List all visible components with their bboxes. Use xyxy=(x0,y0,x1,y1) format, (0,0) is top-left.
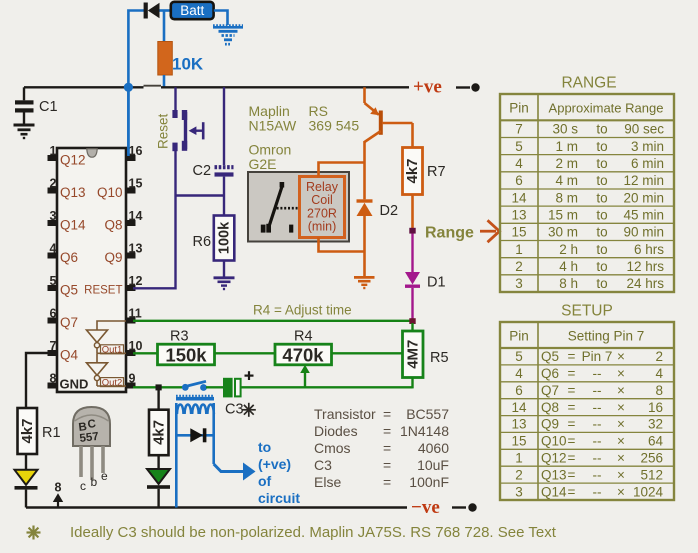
pin 13 xyxy=(126,242,142,259)
svg-text:4: 4 xyxy=(515,366,523,381)
svg-text:6 min: 6 min xyxy=(631,156,664,171)
svg-text:circuit: circuit xyxy=(258,490,300,506)
svg-text:×: × xyxy=(617,400,625,415)
pin 9 xyxy=(126,372,136,389)
wire junction to R2 xyxy=(157,390,159,410)
svg-text:to: to xyxy=(596,207,607,222)
label Q5 xyxy=(60,283,78,298)
svg-text:Relay: Relay xyxy=(306,180,339,194)
svg-text:2: 2 xyxy=(50,177,57,191)
svg-text:RANGE: RANGE xyxy=(561,75,616,92)
svg-text:R4: R4 xyxy=(294,329,313,345)
svg-text:N15AW: N15AW xyxy=(249,118,298,134)
wire inverter1 to pin 10 xyxy=(97,352,126,354)
svg-text:100nF: 100nF xyxy=(409,474,449,490)
label C3 xyxy=(225,402,244,418)
wire reset to pin 12 xyxy=(133,151,176,288)
svg-text:11: 11 xyxy=(129,307,142,321)
inductor L1 (relay coil pickup, blue) xyxy=(176,396,214,414)
svg-text:15 m: 15 m xyxy=(548,207,578,222)
svg-text:7: 7 xyxy=(515,122,523,137)
wire pin 7 to R1 xyxy=(26,353,48,408)
svg-text:5: 5 xyxy=(515,349,523,364)
pin 6 xyxy=(48,307,58,324)
pin 16 xyxy=(126,144,142,161)
svg-text:--: -- xyxy=(593,366,602,381)
svg-text:C2: C2 xyxy=(193,163,212,179)
svg-text:90 sec: 90 sec xyxy=(624,122,664,137)
label Q10 xyxy=(97,185,123,200)
svg-text:369 545: 369 545 xyxy=(309,118,360,134)
wire rail to pin 16 xyxy=(127,87,130,156)
svg-text:SETUP: SETUP xyxy=(561,303,613,320)
svg-text:Reset: Reset xyxy=(156,113,171,149)
label Q8 xyxy=(104,218,122,233)
svg-text:8: 8 xyxy=(655,383,663,398)
svg-text:512: 512 xyxy=(640,467,663,482)
svg-text:=: = xyxy=(383,457,391,473)
svg-text:10: 10 xyxy=(129,339,143,353)
pin 7 xyxy=(48,339,58,356)
arrow Range to table xyxy=(480,220,500,242)
node Range junction xyxy=(409,228,415,234)
svg-text:4k7: 4k7 xyxy=(404,158,421,183)
label Q12 xyxy=(60,153,86,168)
node pin11/R5 junction xyxy=(409,318,415,324)
wire pin 11 net xyxy=(133,320,411,322)
svg-text:8 m: 8 m xyxy=(555,190,578,205)
footnote asterisk xyxy=(27,526,41,540)
transistor package TO-92 BC557 xyxy=(73,407,110,493)
ground R6 (purple) xyxy=(214,278,235,289)
svg-text:to: to xyxy=(596,139,607,154)
svg-text:(+ve): (+ve) xyxy=(258,456,291,472)
svg-text:×: × xyxy=(617,434,625,449)
resistor R6 100k xyxy=(214,216,235,278)
svg-text:=: = xyxy=(568,451,576,466)
diode D5 (blue leads) xyxy=(176,428,213,442)
wire coil right leg xyxy=(212,403,215,464)
svg-text:c: c xyxy=(80,479,86,493)
svg-text:Pin: Pin xyxy=(509,101,529,116)
svg-text:to: to xyxy=(596,122,607,137)
svg-text:4k7: 4k7 xyxy=(19,418,36,443)
IC U1 4060 body xyxy=(57,148,126,392)
relay K1 body xyxy=(248,172,349,242)
svg-text:90 min: 90 min xyxy=(623,225,664,240)
svg-text:BC557: BC557 xyxy=(406,406,449,422)
ground relay (orange) xyxy=(354,277,375,288)
svg-text:to: to xyxy=(596,242,607,257)
svg-text:2 h: 2 h xyxy=(559,242,578,257)
diode D2 xyxy=(357,199,373,216)
svg-text:=: = xyxy=(568,434,576,449)
svg-text:C3: C3 xyxy=(314,457,332,473)
node pin9 junction xyxy=(156,384,162,390)
svg-text:3: 3 xyxy=(515,484,523,499)
wire R3 to R4 xyxy=(215,352,276,354)
svg-text:b: b xyxy=(91,475,98,489)
label R5 xyxy=(430,350,449,366)
svg-text:Q4: Q4 xyxy=(60,348,79,363)
svg-text:Pin: Pin xyxy=(509,329,529,344)
pin 10 xyxy=(126,339,142,356)
wire rail to reset switch xyxy=(174,87,176,110)
label D2 xyxy=(380,203,399,219)
svg-text:5: 5 xyxy=(515,139,523,154)
svg-text:R3: R3 xyxy=(170,329,189,345)
svg-text:×: × xyxy=(617,349,625,364)
wire rail to C2 xyxy=(223,87,225,165)
svg-text:10K: 10K xyxy=(172,55,204,74)
resistor R7 4k7 xyxy=(403,148,423,195)
pin 1 xyxy=(48,144,58,161)
table RANGE xyxy=(500,94,674,292)
svg-text:3: 3 xyxy=(515,276,523,291)
resistor R1 4k7 xyxy=(18,408,38,454)
svg-text:30 m: 30 m xyxy=(548,225,578,240)
svg-text:1 m: 1 m xyxy=(555,139,578,154)
diode D-batt xyxy=(144,3,171,19)
svg-text:Q6: Q6 xyxy=(541,366,559,381)
label R4 xyxy=(294,329,313,345)
svg-text:100k: 100k xyxy=(216,221,232,254)
svg-text:--: -- xyxy=(593,417,602,432)
svg-text:15: 15 xyxy=(511,225,526,240)
svg-text:Q9: Q9 xyxy=(104,250,122,265)
svg-text:(min): (min) xyxy=(308,220,336,234)
wire R1 to LED1 xyxy=(25,454,27,470)
svg-text:270R: 270R xyxy=(307,206,337,220)
pin 5 xyxy=(48,274,58,291)
wire relay coil bottom xyxy=(319,238,365,252)
svg-text:4: 4 xyxy=(655,366,663,381)
svg-text:D1: D1 xyxy=(427,275,446,291)
wire reset node to C2/R6 node xyxy=(176,194,225,196)
svg-text:Q7: Q7 xyxy=(541,383,559,398)
svg-text:×: × xyxy=(617,366,625,381)
capacitor C2 xyxy=(215,167,234,215)
svg-text:to: to xyxy=(596,173,607,188)
pin 4 xyxy=(48,242,58,259)
svg-text:6 hrs: 6 hrs xyxy=(634,242,664,257)
label Out1 xyxy=(101,345,124,356)
svg-text:C3: C3 xyxy=(225,402,244,418)
svg-text:8: 8 xyxy=(50,372,57,386)
LED D4 green xyxy=(147,469,170,508)
svg-text:14: 14 xyxy=(511,400,527,415)
svg-text:24 hrs: 24 hrs xyxy=(626,276,664,291)
svg-text:2: 2 xyxy=(515,467,523,482)
pin 8 xyxy=(48,372,58,389)
svg-text:Q9: Q9 xyxy=(541,417,559,432)
svg-text:13: 13 xyxy=(511,417,526,432)
svg-text:1024: 1024 xyxy=(633,484,664,499)
svg-text:=: = xyxy=(383,406,391,422)
LED D3 yellow xyxy=(15,470,38,508)
svg-text:×: × xyxy=(617,484,625,499)
wire collector to relay coil top xyxy=(319,163,365,177)
svg-text:Q5: Q5 xyxy=(541,349,559,364)
svg-text:9: 9 xyxy=(129,372,136,386)
svg-text:1: 1 xyxy=(515,242,523,257)
ground C1 xyxy=(14,125,35,138)
wire inverter2 to pin 9 xyxy=(97,385,126,387)
label R7 xyxy=(427,164,446,180)
junction battery/rail xyxy=(124,83,133,92)
svg-text:Q12: Q12 xyxy=(60,153,86,168)
svg-text:12 hrs: 12 hrs xyxy=(626,259,664,274)
svg-text:e: e xyxy=(101,469,108,483)
relay coil box xyxy=(300,177,345,238)
svg-text:470k: 470k xyxy=(282,345,324,366)
label R4 = Adjust time xyxy=(253,303,352,318)
svg-text:=: = xyxy=(568,349,576,364)
svg-text:Q10: Q10 xyxy=(97,185,123,200)
svg-text:14: 14 xyxy=(129,209,143,223)
svg-text:4: 4 xyxy=(515,156,523,171)
svg-text:150k: 150k xyxy=(165,345,207,366)
label C1 xyxy=(39,99,58,115)
wire R5 bottom to lower net xyxy=(411,378,413,389)
svg-text:−ve: −ve xyxy=(411,497,440,518)
svg-text:Transistor: Transistor xyxy=(314,406,376,422)
node +ve xyxy=(413,77,480,98)
svg-text:Q14: Q14 xyxy=(541,484,567,499)
node -ve xyxy=(411,497,477,518)
pin 8 marker arrow xyxy=(53,481,63,507)
pin 15 xyxy=(126,177,142,194)
svg-text:4060: 4060 xyxy=(418,440,449,456)
svg-text:×: × xyxy=(617,451,625,466)
table SETUP xyxy=(500,322,674,500)
svg-text:R6: R6 xyxy=(193,234,212,250)
battery Batt xyxy=(171,2,214,19)
svg-text:4M7: 4M7 xyxy=(404,340,421,369)
svg-text:32: 32 xyxy=(648,417,663,432)
svg-text:Diodes: Diodes xyxy=(314,423,358,439)
switch Reset (push button) xyxy=(172,110,203,151)
capacitor C3 xyxy=(223,371,254,397)
wire D1 to R5 node xyxy=(411,288,413,319)
label to (+ve) of circuit xyxy=(258,439,300,506)
wire R2 to LED2 xyxy=(157,455,159,469)
wire R7 to Range node xyxy=(411,195,414,230)
svg-text:--: -- xyxy=(593,484,602,499)
svg-text:--: -- xyxy=(593,467,602,482)
svg-text:=: = xyxy=(383,423,391,439)
resistor 10K xyxy=(158,11,173,88)
svg-text:Q8: Q8 xyxy=(104,218,122,233)
svg-text:Pin 7: Pin 7 xyxy=(582,349,613,364)
svg-text:4k7: 4k7 xyxy=(150,420,167,445)
svg-text:--: -- xyxy=(593,434,602,449)
label GND xyxy=(60,377,89,392)
pin 14 xyxy=(126,209,142,226)
svg-text:3 min: 3 min xyxy=(631,139,664,154)
capacitor C1 xyxy=(15,87,34,124)
svg-text:R5: R5 xyxy=(430,350,449,366)
asterisk C3 xyxy=(242,403,256,417)
ground battery (blue) xyxy=(213,25,243,44)
svg-text:Q8: Q8 xyxy=(541,400,559,415)
resistor R3 150k xyxy=(158,344,215,365)
svg-text:15: 15 xyxy=(511,434,526,449)
label R1 xyxy=(42,425,61,441)
svg-text:+ve: +ve xyxy=(413,77,442,98)
svg-text:8: 8 xyxy=(55,481,62,495)
svg-text:6: 6 xyxy=(50,307,57,321)
svg-text:to: to xyxy=(596,259,607,274)
label RESET xyxy=(84,285,122,297)
inverter buffer 2 xyxy=(87,353,108,386)
svg-text:Batt: Batt xyxy=(180,3,204,18)
svg-text:6: 6 xyxy=(515,383,523,398)
svg-text:1: 1 xyxy=(50,144,57,158)
svg-text:7: 7 xyxy=(50,339,57,353)
svg-text:D2: D2 xyxy=(380,203,399,219)
svg-text:16: 16 xyxy=(648,400,663,415)
relay contact symbol xyxy=(261,182,299,233)
svg-text:2: 2 xyxy=(515,259,523,274)
svg-text:4 m: 4 m xyxy=(555,173,578,188)
label D1 xyxy=(427,275,446,291)
label R3 xyxy=(170,329,189,345)
svg-text:12: 12 xyxy=(129,274,143,288)
label Q9 xyxy=(104,250,122,265)
svg-text:16: 16 xyxy=(129,144,143,158)
svg-text:13: 13 xyxy=(511,207,526,222)
wire batt to ground xyxy=(214,11,228,26)
svg-text:Cmos: Cmos xyxy=(314,440,351,456)
resistor R2 4k7 xyxy=(149,410,169,456)
svg-text:8 h: 8 h xyxy=(559,276,578,291)
wire collector down through D2 xyxy=(363,163,366,277)
svg-text:Q10: Q10 xyxy=(541,434,567,449)
svg-text:1: 1 xyxy=(515,451,523,466)
svg-text:Q13: Q13 xyxy=(60,185,86,200)
svg-text:=: = xyxy=(568,383,576,398)
svg-text:=: = xyxy=(383,440,391,456)
pin 3 xyxy=(48,209,58,226)
svg-text:×: × xyxy=(617,467,625,482)
svg-text:3: 3 xyxy=(50,209,57,223)
parts list xyxy=(314,406,449,490)
label 10K xyxy=(172,55,204,74)
svg-text:13: 13 xyxy=(129,242,143,256)
diode D1 xyxy=(405,272,420,288)
svg-text:1N4148: 1N4148 xyxy=(400,423,449,439)
svg-text:to: to xyxy=(596,156,607,171)
svg-text:Q6: Q6 xyxy=(60,250,78,265)
transistor Q1 BC557 (PNP) xyxy=(365,87,413,162)
wire +ve rail xyxy=(24,86,409,88)
inverter buffer 1 xyxy=(87,321,127,353)
svg-text:C: C xyxy=(87,418,97,431)
svg-text:12 min: 12 min xyxy=(623,173,664,188)
svg-text:45 min: 45 min xyxy=(623,207,664,222)
svg-text:2: 2 xyxy=(655,349,663,364)
svg-text:to: to xyxy=(596,225,607,240)
svg-text:to: to xyxy=(596,276,607,291)
svg-text:×: × xyxy=(617,417,625,432)
svg-text:to: to xyxy=(596,190,607,205)
svg-text:--: -- xyxy=(593,451,602,466)
svg-text:=: = xyxy=(568,484,576,499)
svg-text:Setting Pin 7: Setting Pin 7 xyxy=(568,329,645,344)
wire pin 10 to R3 xyxy=(133,352,157,354)
footnote text xyxy=(70,524,557,541)
svg-text:C1: C1 xyxy=(39,99,58,115)
label C2 xyxy=(193,163,212,179)
label Reset xyxy=(156,113,171,149)
svg-text:to: to xyxy=(258,439,271,455)
wire junction to R5 top xyxy=(411,323,413,331)
table RANGE title xyxy=(561,75,616,92)
wire Range node to D1 xyxy=(411,234,413,273)
svg-text:Q12: Q12 xyxy=(541,451,567,466)
table SETUP title xyxy=(561,303,613,320)
svg-text:of: of xyxy=(258,473,272,489)
svg-text:--: -- xyxy=(593,383,602,398)
wire/arrow to +ve of circuit xyxy=(214,463,256,481)
svg-text:--: -- xyxy=(593,400,602,415)
svg-text:Approximate Range: Approximate Range xyxy=(549,101,664,116)
svg-text:Q5: Q5 xyxy=(60,283,78,298)
label Q14 xyxy=(60,218,86,233)
svg-text:GND: GND xyxy=(60,377,89,392)
svg-text:RESET: RESET xyxy=(84,285,122,297)
svg-text:10uF: 10uF xyxy=(417,457,449,473)
wire R4 to R5 side xyxy=(332,352,403,354)
svg-text:4: 4 xyxy=(50,242,57,256)
svg-text:R7: R7 xyxy=(427,164,446,180)
resistor R5 4M7 xyxy=(403,331,424,378)
svg-text:2 m: 2 m xyxy=(555,156,578,171)
wire switch to C3 xyxy=(206,386,223,388)
svg-text:15: 15 xyxy=(129,177,143,191)
wire coil left to -ve rail xyxy=(175,403,178,508)
svg-text:Coil: Coil xyxy=(311,193,333,207)
svg-text:=: = xyxy=(568,400,576,415)
svg-text:Q13: Q13 xyxy=(541,467,567,482)
svg-text:=: = xyxy=(568,417,576,432)
svg-text:Ideally C3 should be non-polar: Ideally C3 should be non-polarized. Mapl… xyxy=(70,524,557,541)
potentiometer R4 470k xyxy=(275,344,332,365)
svg-text:Q14: Q14 xyxy=(60,218,86,233)
wire -ve rail xyxy=(26,506,407,509)
svg-text:R1: R1 xyxy=(42,425,61,441)
svg-text:20 min: 20 min xyxy=(623,190,664,205)
svg-text:R4 = Adjust time: R4 = Adjust time xyxy=(253,303,352,318)
label R6 xyxy=(193,234,212,250)
wire pin 9 net xyxy=(133,386,185,388)
svg-text:5: 5 xyxy=(50,274,57,288)
pin 2 xyxy=(48,177,58,194)
pin 11 xyxy=(126,307,142,324)
svg-text:Else: Else xyxy=(314,474,341,490)
svg-text:=: = xyxy=(568,467,576,482)
wire C3 to R5 bottom xyxy=(241,386,413,388)
svg-text:Q7: Q7 xyxy=(60,315,78,330)
svg-text:Range: Range xyxy=(425,225,474,242)
label Maplin RS part numbers xyxy=(249,103,360,172)
switch S1 (blue) xyxy=(182,381,207,391)
svg-text:=: = xyxy=(383,474,391,490)
label Q13 xyxy=(60,185,86,200)
pin 12 xyxy=(126,274,142,291)
svg-text:4 h: 4 h xyxy=(559,259,578,274)
